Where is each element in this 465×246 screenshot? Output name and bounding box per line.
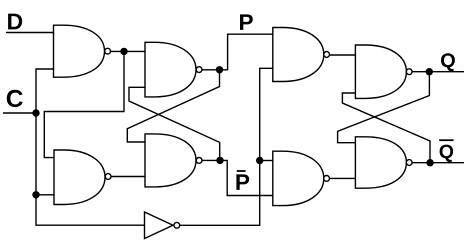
nand U1	[54, 25, 105, 77]
node Q junction	[426, 68, 433, 75]
wire U4 output to U6 lower input	[202, 160, 272, 195]
node U4 output junction	[216, 157, 223, 164]
node C junction	[32, 109, 39, 116]
label P	[240, 14, 253, 30]
wire U4 output cross to U3 lower input	[129, 87, 220, 160]
nand U6	[273, 151, 324, 205]
nand U5	[273, 28, 324, 82]
nand U4	[145, 134, 196, 187]
label P-bar	[236, 174, 249, 190]
wire U1 output feedback to U2 upper input	[44, 51, 124, 157]
nand U8	[355, 137, 406, 188]
wire C input	[3, 112, 36, 114]
wire U7 output cross to U8 upper input	[338, 72, 430, 143]
node C junction at U2 input	[32, 191, 39, 198]
wire clock-bar to U6 upper input	[260, 160, 273, 162]
wire inverter output to slave clock riser	[180, 68, 273, 225]
wire U3 output to node P riser	[202, 34, 272, 70]
node U1 output junction	[120, 48, 127, 55]
nand U7	[355, 45, 406, 98]
wire U8 output Q-bar	[412, 162, 464, 164]
node Q-bar junction	[426, 159, 433, 166]
node clock-bar junction	[256, 157, 263, 164]
inverter U9	[145, 212, 174, 239]
wire C down to gate U2 and inverter	[36, 113, 145, 225]
wire U8 output cross to U7 lower input	[342, 93, 430, 163]
wire U2 output to U4 lower input	[111, 176, 145, 178]
nand U2	[54, 150, 105, 205]
node U3 output junction	[216, 66, 223, 73]
wire U7 output Q	[412, 71, 464, 73]
wire U5 output to U7 upper input	[330, 54, 356, 56]
nand U3	[145, 42, 196, 97]
wire U6 output to U8 lower input	[330, 177, 356, 179]
label Q-bar	[440, 145, 454, 162]
wire U1 output	[111, 50, 145, 52]
wire D input	[6, 32, 54, 34]
label D	[8, 14, 22, 30]
wire C to gate U1 lower input	[36, 69, 54, 113]
label C	[7, 90, 23, 107]
wire U3 output cross to U4 upper input	[127, 70, 219, 142]
wire C to gate U2 lower input	[36, 194, 54, 196]
label Q	[441, 53, 455, 71]
